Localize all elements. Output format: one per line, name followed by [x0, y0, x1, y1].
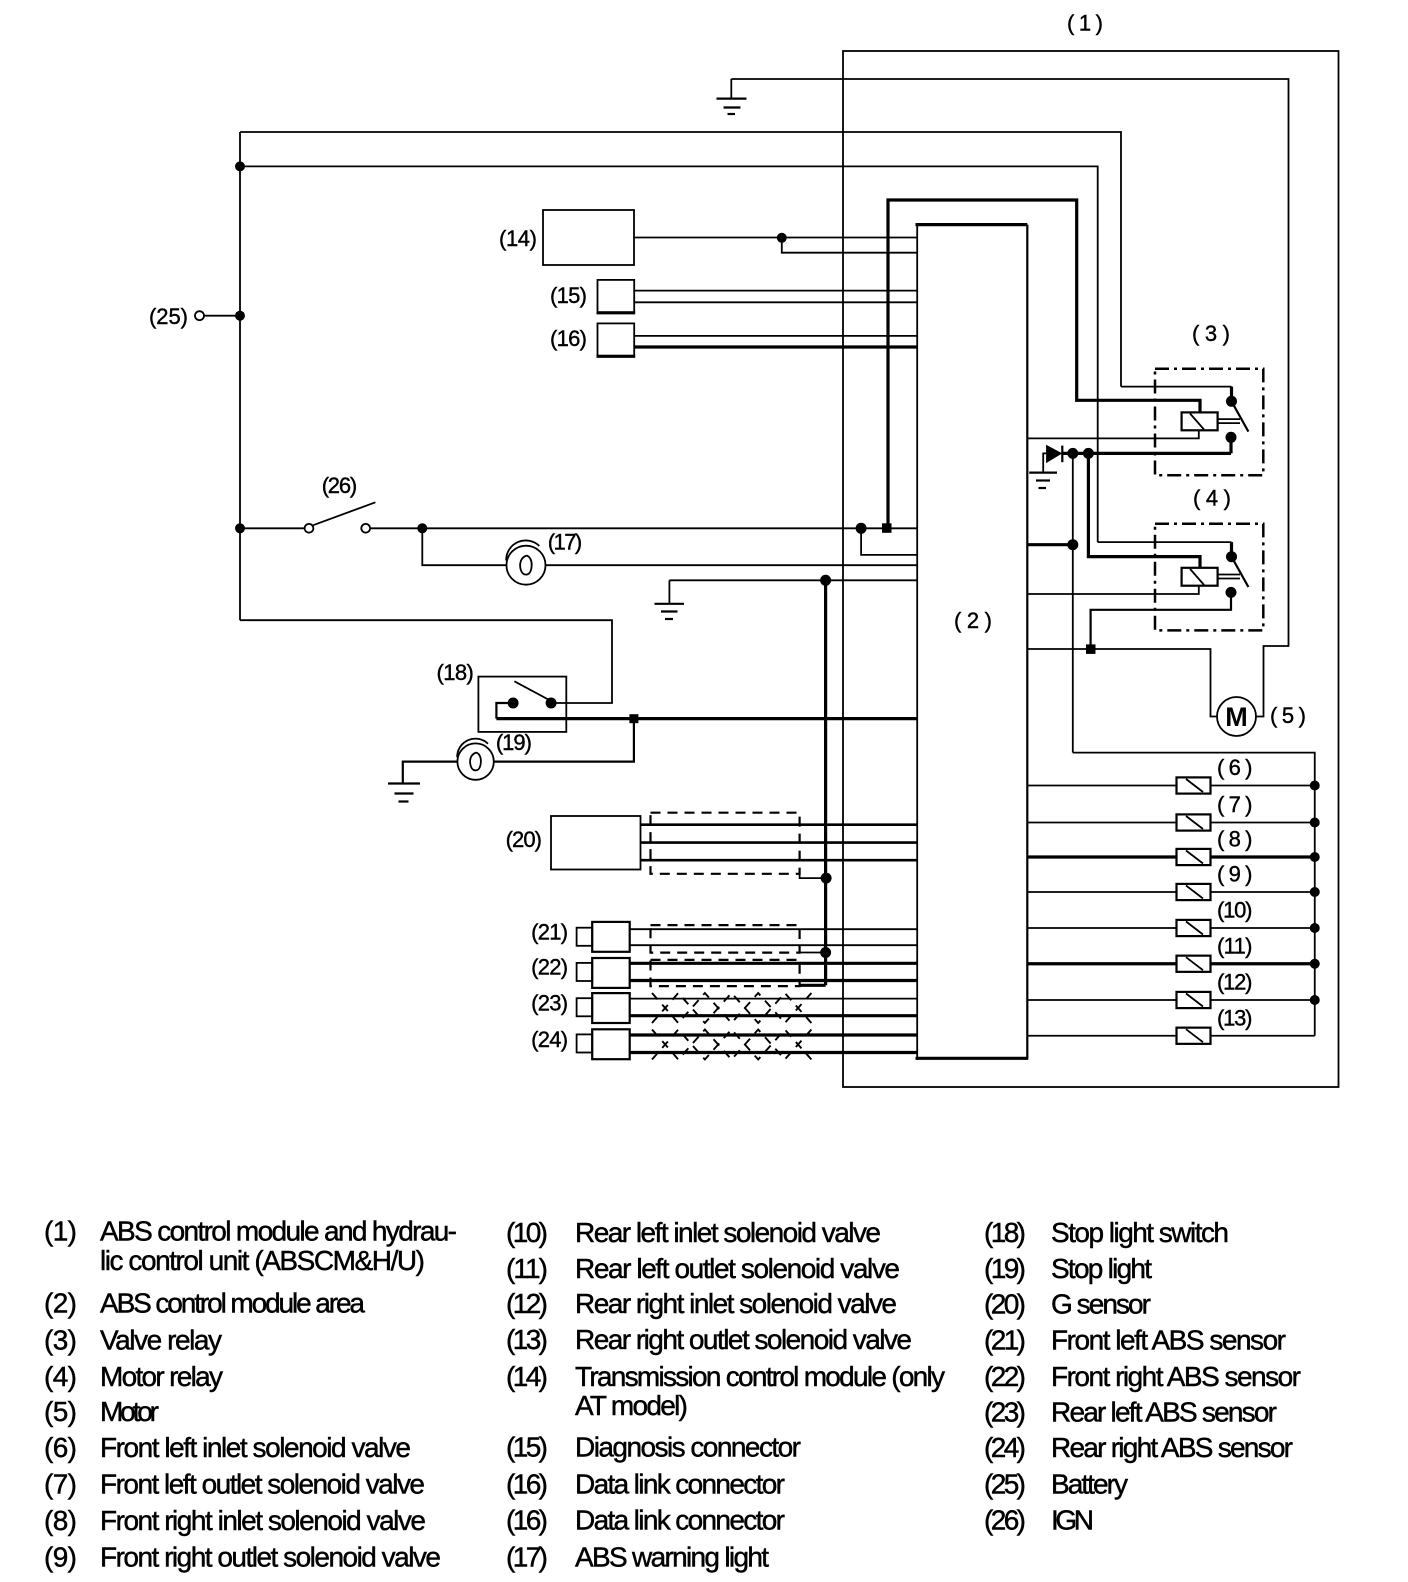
wire module to valve power monitor: [1027, 543, 1073, 546]
svg-text:( 1 ): ( 1 ): [1067, 11, 1103, 36]
svg-text:( 8 ): ( 8 ): [1217, 827, 1253, 852]
wire 16b thick: [634, 345, 917, 348]
wire relay3 coil return to module: [1027, 430, 1199, 438]
svg-text:Front left inlet solenoid valv: Front left inlet solenoid valve: [100, 1432, 411, 1463]
node stop light tap: [629, 714, 638, 723]
svg-text:(11): (11): [506, 1253, 548, 1284]
wire battery to relay4 contact: [1098, 541, 1232, 543]
svg-text:Front right ABS sensor: Front right ABS sensor: [1051, 1361, 1301, 1392]
junction bus IGN: [235, 523, 245, 533]
wire 21b: [630, 944, 918, 946]
svg-text:(19): (19): [984, 1253, 1026, 1284]
legend column 3: [984, 1217, 1301, 1535]
wire shield ground drop: [824, 580, 827, 985]
svg-text:(12): (12): [1217, 970, 1253, 995]
relay4 actuator link: [1218, 575, 1240, 579]
junction IGN second branch: [856, 523, 867, 534]
solenoid valve (13): [1027, 1035, 1176, 1037]
svg-text:(6): (6): [44, 1432, 77, 1463]
motor (5): [1217, 697, 1256, 736]
svg-text:IGN: IGN: [1051, 1505, 1094, 1536]
solenoid valve (10): [1027, 927, 1176, 929]
ground symbol diode: [1029, 473, 1057, 488]
svg-text:Transmission control module (o: Transmission control module (only: [575, 1361, 945, 1392]
svg-text:(18): (18): [437, 660, 474, 685]
junction module monitor: [1067, 539, 1078, 550]
svg-text:( 7 ): ( 7 ): [1217, 792, 1253, 817]
svg-text:Motor: Motor: [100, 1396, 159, 1427]
wire relay3 output row: [1063, 452, 1231, 455]
svg-text:(16): (16): [550, 326, 587, 351]
ground symbol top: [717, 79, 747, 114]
svg-text:(25): (25): [149, 304, 188, 329]
svg-text:(10): (10): [1217, 898, 1253, 923]
legend column 2: [506, 1217, 945, 1572]
switch 18 contacts: [508, 681, 557, 708]
svg-text:(16): (16): [506, 1469, 548, 1500]
wire 16a: [634, 335, 917, 337]
svg-text:Data link connector: Data link connector: [575, 1505, 785, 1536]
wire IGN to module: [370, 527, 917, 529]
wire 24a thick: [630, 1033, 918, 1036]
svg-text:Data link connector: Data link connector: [575, 1469, 785, 1500]
svg-text:Front right outlet solenoid va: Front right outlet solenoid valve: [100, 1542, 441, 1573]
svg-text:lic control unit (ABSCM&H/U): lic control unit (ABSCM&H/U): [100, 1245, 425, 1276]
svg-text:Stop light switch: Stop light switch: [1051, 1217, 1229, 1248]
solenoid valve (9): [1027, 891, 1176, 893]
wire 21a: [630, 928, 918, 930]
relay4 blade: [1232, 557, 1249, 587]
svg-text:Front left ABS sensor: Front left ABS sensor: [1051, 1324, 1286, 1355]
wire 23a: [630, 998, 918, 1000]
svg-text:(20): (20): [984, 1289, 1026, 1320]
solenoid valve (6): [1027, 785, 1176, 787]
wire second branch into module: [861, 528, 917, 555]
solenoid valve (12): [1027, 999, 1176, 1001]
junction 21 shield: [820, 947, 831, 958]
transmission control module (14): [543, 210, 634, 265]
junction at bus y166: [235, 161, 245, 171]
relay3 actuator link: [1218, 419, 1240, 423]
svg-text:(21): (21): [531, 919, 568, 944]
svg-text:(5): (5): [44, 1396, 77, 1427]
G sensor shield dashed box: [651, 813, 800, 874]
G sensor (20): [551, 816, 641, 870]
svg-text:Front right inlet solenoid val: Front right inlet solenoid valve: [100, 1505, 426, 1536]
relay3 contact bottom: [1226, 432, 1237, 443]
svg-text:(22): (22): [531, 954, 568, 979]
wire G sensor 3: [641, 859, 918, 862]
wire thick riser to valve relay coil: [888, 200, 1200, 528]
svg-text:(12): (12): [506, 1288, 548, 1319]
motor relay (4): [1155, 524, 1263, 631]
diode: [1043, 446, 1062, 473]
svg-text:(13): (13): [506, 1324, 548, 1355]
wire relay4 contact to motor: [1091, 592, 1231, 649]
junction ground shield riser: [820, 575, 831, 586]
svg-text:( 9 ): ( 9 ): [1217, 862, 1253, 887]
svg-text:Rear right ABS sensor: Rear right ABS sensor: [1051, 1432, 1293, 1463]
wire 21 shield elbow: [800, 949, 826, 953]
svg-text:(26): (26): [984, 1505, 1026, 1536]
svg-text:M: M: [1225, 702, 1248, 732]
front left ABS sensor (21) connector: [577, 922, 630, 952]
junction battery bus: [235, 311, 245, 321]
svg-text:(3): (3): [44, 1324, 77, 1355]
svg-text:ABS control module area: ABS control module area: [100, 1287, 365, 1318]
wire top ground to motor: [731, 79, 1288, 717]
wire relay3 contact out: [1229, 437, 1232, 453]
wire G sensor 1: [641, 823, 918, 826]
svg-text:(20): (20): [506, 827, 542, 852]
svg-text:(24): (24): [531, 1027, 568, 1052]
valve relay (3): [1155, 369, 1263, 476]
wire 15a: [634, 290, 917, 292]
svg-text:Stop light: Stop light: [1051, 1253, 1152, 1284]
svg-text:( 6 ): ( 6 ): [1217, 755, 1253, 780]
wire relay4 coil feed: [1088, 453, 1200, 567]
wire 22a thick: [630, 962, 918, 965]
relay3 coil: [1182, 412, 1218, 430]
svg-text:(22): (22): [984, 1361, 1026, 1392]
svg-text:(18): (18): [984, 1217, 1026, 1248]
legend column 1: [44, 1216, 457, 1573]
svg-text:(17): (17): [506, 1542, 548, 1573]
relay3 contact top: [1226, 396, 1237, 407]
svg-text:(19): (19): [496, 730, 532, 755]
svg-text:Motor relay: Motor relay: [100, 1361, 223, 1392]
twisted pair 24 zigzag: [652, 1030, 811, 1060]
stop light switch (18) box: [478, 677, 566, 732]
solenoid valve (8): [1027, 855, 1176, 858]
svg-text:(8): (8): [44, 1505, 77, 1536]
svg-text:Valve relay: Valve relay: [100, 1324, 222, 1355]
svg-text:G sensor: G sensor: [1051, 1289, 1151, 1320]
svg-text:( 4 ): ( 4 ): [1193, 486, 1231, 511]
svg-text:(15): (15): [550, 283, 587, 308]
svg-text:(23): (23): [531, 990, 568, 1015]
svg-text:(23): (23): [984, 1397, 1026, 1428]
svg-text:AT model): AT model): [575, 1390, 688, 1421]
svg-text:(26): (26): [322, 473, 358, 498]
wire valve power drop: [1072, 453, 1074, 752]
diagnosis connector (15): [598, 280, 635, 312]
relay4 contact top: [1226, 551, 1237, 562]
relay4 contact bottom: [1226, 587, 1237, 598]
battery left bus wire: [239, 132, 241, 620]
wire 22b thick: [630, 979, 918, 982]
svg-text:(9): (9): [44, 1542, 77, 1573]
solenoid valve (11): [1027, 962, 1176, 965]
switch (26): [305, 502, 376, 532]
wire stop switch to module: [496, 703, 513, 719]
junction IGN lamp branch: [417, 523, 427, 533]
wire TCM to ABSCM: [634, 237, 917, 239]
svg-text:(14): (14): [506, 1361, 548, 1392]
wire TCM branch: [782, 238, 917, 253]
ABS control module area (2): [916, 223, 1029, 1060]
wire battery to relay3 contact: [1121, 386, 1232, 388]
node IGN thick riser terminal: [882, 523, 892, 533]
svg-text:(24): (24): [984, 1432, 1026, 1463]
svg-text:(7): (7): [44, 1469, 77, 1500]
ABSCM&H/U outer box (1): [843, 51, 1339, 1087]
rear left ABS sensor (23) connector: [577, 993, 630, 1023]
wire battery top line to valve relay: [240, 132, 1121, 387]
svg-text:(13): (13): [1217, 1005, 1253, 1030]
svg-text:Rear right outlet solenoid val: Rear right outlet solenoid valve: [575, 1324, 912, 1355]
wire battery to bus: [204, 315, 240, 317]
svg-text:(25): (25): [984, 1469, 1026, 1500]
svg-text:Rear right inlet solenoid valv: Rear right inlet solenoid valve: [575, 1288, 897, 1319]
wire branch to ABS warning light: [422, 528, 506, 565]
relay3 blade: [1232, 401, 1249, 431]
stop light (19): [457, 739, 494, 780]
solenoid valve (7): [1027, 822, 1176, 824]
relay4 coil: [1182, 568, 1218, 586]
svg-text:(2): (2): [44, 1287, 77, 1318]
junction valve feed: [1067, 448, 1078, 459]
ground symbol stop light: [388, 784, 420, 802]
data link connector (16): [598, 323, 635, 355]
sensor 21 shield dashed box: [651, 925, 800, 953]
wire valve bus feed: [1073, 753, 1315, 1036]
svg-text:(10): (10): [506, 1217, 548, 1248]
svg-text:(14): (14): [499, 226, 537, 251]
svg-text:Rear left outlet solenoid valv: Rear left outlet solenoid valve: [575, 1253, 900, 1284]
junction motor line: [1086, 644, 1096, 654]
wire bus to stop light switch: [240, 620, 612, 703]
svg-text:Battery: Battery: [1051, 1469, 1128, 1500]
svg-text:( 2 ): ( 2 ): [954, 608, 992, 633]
wire stop light drop: [494, 719, 634, 762]
svg-text:(21): (21): [984, 1324, 1026, 1355]
junction TCM wire: [777, 233, 787, 243]
ground symbol mid: [655, 580, 685, 619]
wire lamp17 to module: [546, 564, 918, 566]
svg-text:(15): (15): [506, 1432, 548, 1463]
wire 23b thick: [630, 1014, 918, 1017]
wire G sensor 2: [641, 841, 918, 844]
rear right ABS sensor (24) connector: [577, 1029, 630, 1059]
sensor 22 shield dashed box: [651, 960, 800, 986]
svg-text:ABS warning light: ABS warning light: [575, 1542, 769, 1573]
twisted pair 23 zigzag: [652, 993, 811, 1023]
svg-text:( 3 ): ( 3 ): [1192, 321, 1230, 346]
wire 15b: [634, 301, 917, 303]
wire stop light to ground: [403, 762, 458, 783]
ABS warning light (17): [506, 540, 545, 584]
svg-text:Diagnosis connector: Diagnosis connector: [575, 1432, 801, 1463]
svg-text:Rear left inlet solenoid valve: Rear left inlet solenoid valve: [575, 1217, 881, 1248]
junction relay4 coil feed: [1083, 448, 1094, 459]
battery (25) terminal: [195, 311, 204, 320]
wire second battery line to motor relay: [240, 166, 1098, 542]
wire 24b thick: [630, 1051, 918, 1054]
svg-text:Rear left ABS sensor: Rear left ABS sensor: [1051, 1397, 1277, 1428]
IGN switch (26) wire from bus: [240, 527, 305, 529]
svg-text:Front left outlet solenoid val: Front left outlet solenoid valve: [100, 1469, 425, 1500]
svg-text:( 5 ): ( 5 ): [1270, 703, 1306, 728]
wire ground to module: [669, 579, 917, 581]
wire module motor line: [1027, 649, 1217, 717]
svg-text:ABS control module and hydrau-: ABS control module and hydrau-: [100, 1216, 457, 1247]
wire 22 shield elbow thick: [800, 984, 826, 987]
svg-text:(4): (4): [44, 1361, 77, 1392]
svg-text:(11): (11): [1217, 933, 1253, 958]
wire G shield to ground riser: [800, 869, 827, 878]
svg-text:(16): (16): [506, 1505, 548, 1536]
junction G shield: [821, 873, 832, 884]
svg-text:(17): (17): [548, 529, 582, 554]
svg-text:(1): (1): [44, 1216, 77, 1247]
wire relay4 coil return to module: [1027, 586, 1199, 594]
front right ABS sensor (22) connector: [577, 958, 630, 988]
